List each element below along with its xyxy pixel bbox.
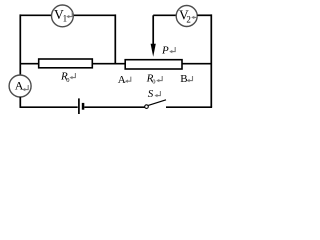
wire left vertical upper: [19, 14, 21, 75]
svg-text:2: 2: [186, 14, 191, 24]
wire bottom right: [166, 106, 212, 108]
wire V1 to corner and down to node: [73, 14, 115, 63]
return mark after left R0: [69, 73, 75, 79]
label R0 left: [60, 70, 69, 84]
voltmeter V1: [52, 5, 74, 27]
label S: [148, 88, 154, 100]
label P: [161, 44, 169, 56]
wire middle left: [20, 63, 38, 65]
svg-text:A: A: [15, 79, 24, 93]
wire V2 to right corner and down: [197, 14, 211, 107]
voltmeter V2: [176, 6, 197, 27]
label A under rheostat left end: [118, 74, 126, 86]
rheostat R body: [125, 60, 182, 69]
svg-text:S: S: [148, 88, 154, 100]
wire rheostat B to right vertical: [182, 63, 211, 65]
wire V2 branch left: [153, 14, 176, 16]
return mark after S: [154, 91, 160, 97]
battery: [79, 98, 84, 114]
svg-text:P: P: [161, 44, 169, 56]
wire middle between R0 and rheostat: [92, 63, 125, 65]
return mark in ammeter: [22, 85, 28, 91]
return mark in V1: [66, 12, 72, 18]
return mark after middle R0: [156, 76, 162, 82]
svg-text:B: B: [180, 73, 187, 85]
return mark after A label: [125, 77, 131, 83]
switch S: [145, 100, 166, 109]
resistor R0 body: [39, 59, 93, 68]
return mark in V2: [191, 13, 197, 19]
label R0 under rheostat middle: [146, 72, 156, 85]
wire left vertical lower: [19, 97, 21, 107]
svg-text:A: A: [118, 74, 126, 86]
return mark after B label: [187, 76, 193, 82]
svg-text:1: 1: [63, 14, 68, 24]
label B under rheostat right end: [180, 73, 187, 85]
wire top-left horizontal: [20, 14, 51, 16]
return mark after P: [169, 47, 175, 53]
wire bottom middle: [84, 106, 144, 108]
wire bottom left: [20, 106, 78, 108]
ammeter A: [9, 75, 31, 97]
svg-text:0: 0: [152, 78, 155, 85]
slider arrow P: [151, 15, 156, 57]
svg-text:0: 0: [66, 77, 69, 84]
